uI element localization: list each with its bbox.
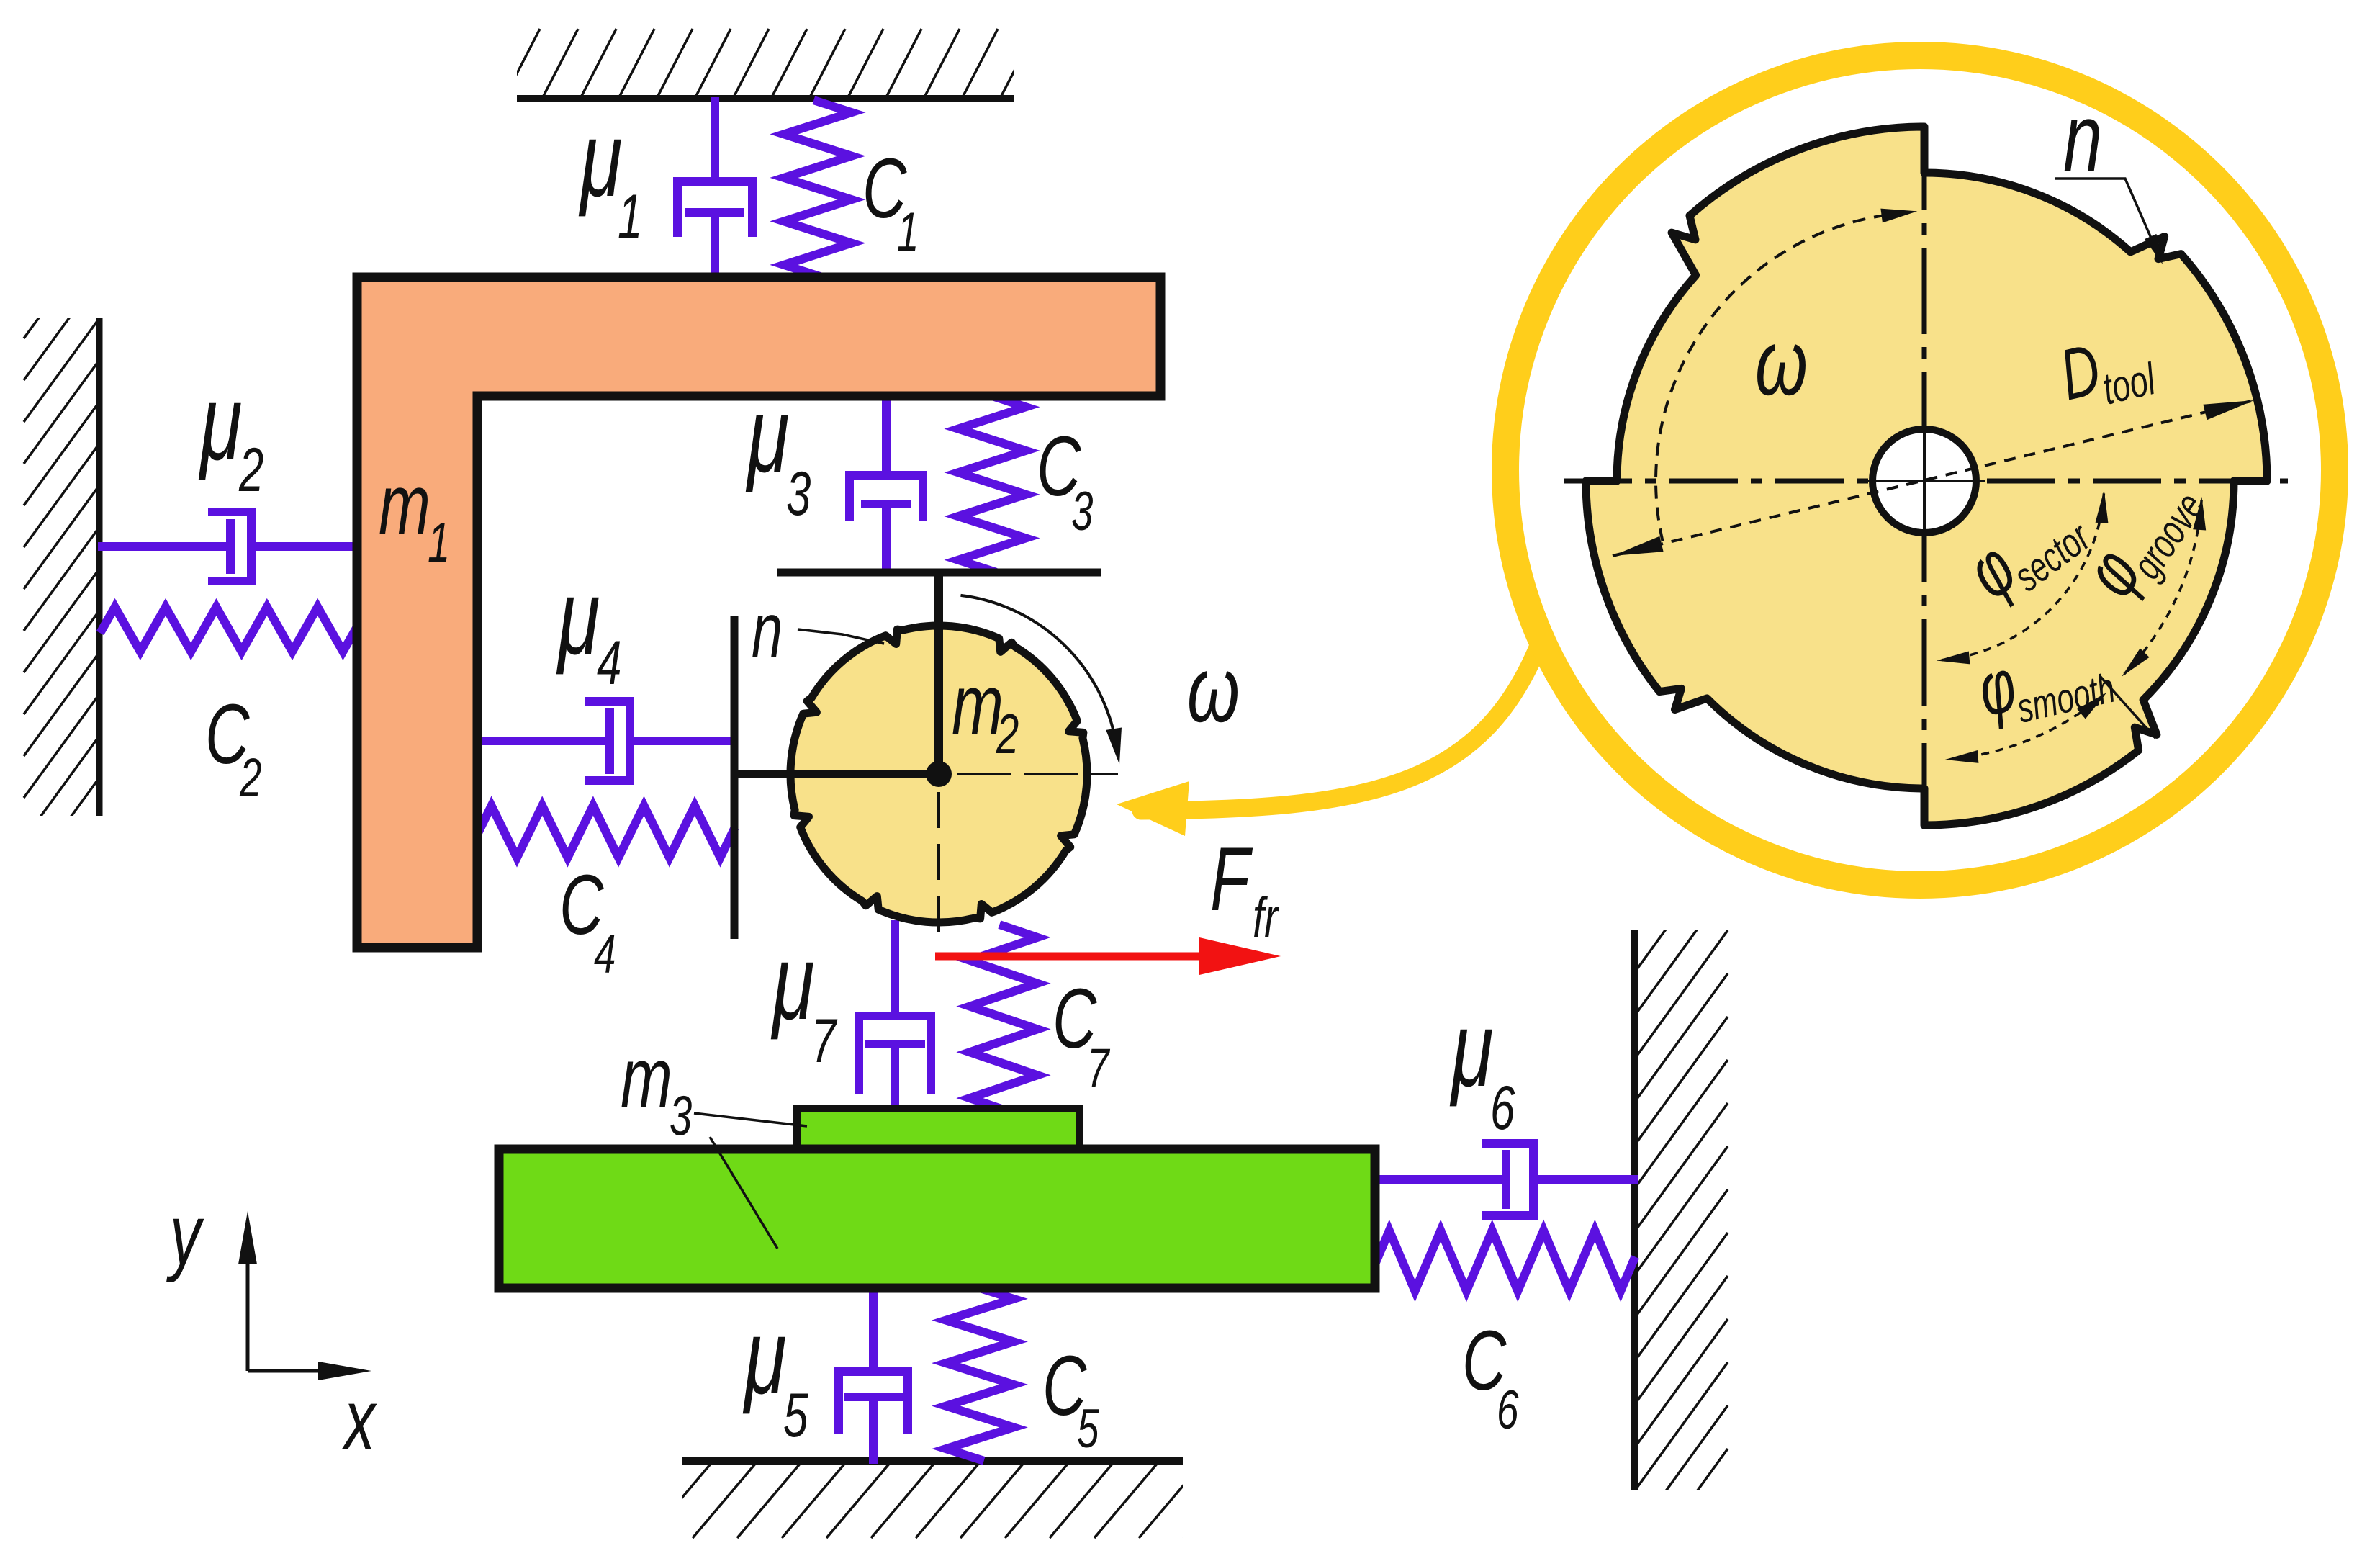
svg-text:4: 4 (597, 628, 621, 697)
damper mu1 (677, 102, 752, 277)
phi_groove arc (2124, 500, 2201, 674)
svg-text:m: m (621, 1030, 672, 1126)
svg-text:4: 4 (594, 924, 616, 985)
bubble center hole (1872, 429, 1976, 533)
friction force F_fr arrow (935, 953, 1217, 961)
centerline right (957, 773, 1118, 775)
svg-text:ω: ω (1187, 637, 1240, 742)
svg-text:5: 5 (783, 1380, 808, 1449)
svg-text:μ: μ (556, 558, 600, 677)
svg-text:1: 1 (428, 511, 450, 574)
svg-text:μ: μ (1450, 990, 1494, 1109)
label phi_groove (2068, 459, 2213, 614)
svg-text:m: m (379, 456, 431, 553)
svg-text:F: F (1210, 829, 1253, 930)
tool holder top bar (777, 569, 1101, 577)
spring C6 (1376, 1231, 1633, 1291)
svg-text:n: n (752, 586, 783, 673)
svg-text:3: 3 (1071, 481, 1094, 542)
svg-text:1: 1 (618, 181, 642, 251)
tool holder left bar (731, 616, 739, 939)
svg-text:1: 1 (897, 202, 919, 263)
left wall hatch (24, 235, 99, 923)
tool spindle vertical line (934, 572, 943, 774)
spring C5 (946, 1288, 1014, 1459)
phi_smooth arc (1949, 695, 2104, 759)
svg-text:μ: μ (771, 923, 815, 1042)
callout ring (yellow circle) (1505, 55, 2335, 885)
mass m1 (orange L-bracket) (357, 277, 1160, 948)
damper mu5 (839, 1288, 908, 1459)
svg-text:7: 7 (1087, 1038, 1110, 1099)
svg-text:μ: μ (746, 376, 790, 495)
bubble tool profile (yellow sectors) (1586, 127, 2267, 825)
m3 leader lines (694, 1113, 807, 1126)
svg-text:μ: μ (199, 364, 243, 482)
left wall line (96, 318, 103, 816)
right wall hatch (1635, 844, 1728, 1561)
n leader (main) (798, 629, 884, 644)
floor hatch (648, 1463, 1247, 1538)
svg-text:2: 2 (996, 703, 1019, 765)
svg-text:2: 2 (239, 747, 261, 809)
mass m3 small block (797, 1108, 1080, 1151)
svg-text:5: 5 (1077, 1398, 1099, 1459)
callout tail (yellow) (1141, 639, 1541, 811)
mass m3 big slab (499, 1149, 1375, 1288)
ceiling hatch (504, 29, 1036, 99)
right wall line (1631, 930, 1638, 1490)
svg-text:3: 3 (670, 1084, 692, 1147)
tool center dot (926, 761, 952, 787)
phi_sector arc (1940, 493, 2104, 660)
svg-text:3: 3 (786, 459, 811, 528)
damper mu7 (859, 925, 931, 1110)
svg-text:x: x (341, 1372, 377, 1468)
hole crosshair (1923, 421, 1926, 541)
damper mu2 (102, 512, 357, 581)
bubble vertical centerline (1922, 124, 1927, 834)
svg-text:7: 7 (811, 1006, 837, 1075)
spring C1 (784, 102, 852, 276)
omega rotation arc (961, 595, 1117, 746)
label D_tool (2053, 318, 2161, 423)
coordinate axes (246, 1224, 250, 1371)
svg-text:2: 2 (238, 435, 263, 504)
spring C3 (958, 396, 1026, 571)
svg-text:m: m (952, 657, 1004, 753)
damper mu4 (479, 701, 733, 780)
D_tool dimension line (1613, 400, 2254, 556)
svg-text:ω: ω (1755, 310, 1808, 415)
tool mass m2 (yellow cutter disc) (790, 626, 1087, 922)
spring C2 (102, 607, 356, 652)
svg-text:fr: fr (1253, 886, 1279, 950)
centerline down (937, 792, 940, 948)
svg-text:n: n (2063, 84, 2102, 192)
n leader (bubble) (2055, 179, 2160, 258)
spring C7 (970, 926, 1037, 1110)
damper mu6 (1376, 1143, 1633, 1215)
ceiling line (517, 95, 1014, 102)
floor line (682, 1457, 1183, 1465)
tool horizontal line (734, 770, 939, 778)
bubble horizontal centerline (1564, 479, 2288, 484)
svg-text:6: 6 (1490, 1073, 1515, 1142)
svg-text:6: 6 (1497, 1380, 1519, 1441)
svg-text:y: y (166, 1187, 204, 1283)
damper mu3 (849, 396, 923, 571)
groove/smooth boundary tick (2100, 676, 2155, 738)
label phi_smooth (1970, 621, 2119, 739)
spring C4 (479, 806, 733, 858)
svg-text:μ: μ (743, 1297, 787, 1416)
label phi_sector (1952, 477, 2099, 620)
bubble omega arc (1656, 215, 1891, 541)
svg-text:μ: μ (579, 100, 623, 219)
